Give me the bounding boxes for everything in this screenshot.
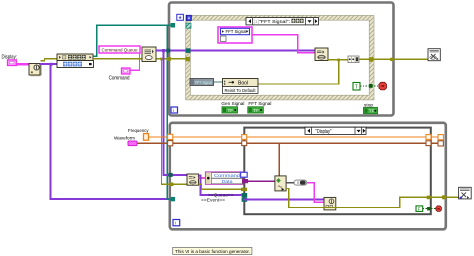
wire+tunnel: Data (dark magenta) into event2 to function VI	[242, 179, 275, 183]
event structure 1 selector label	[246, 18, 319, 26]
label: Reinit To Default	[223, 87, 259, 94]
svg-text:Command: Command	[109, 76, 130, 82]
svg-text:"Display": "Display"	[315, 129, 331, 135]
while loop 1 (top, gray border)	[169, 3, 394, 116]
node: To DDT capsule	[294, 180, 307, 185]
label stop	[364, 102, 373, 108]
svg-text:This VI is a basic function ge: This VI is a basic function generator.	[175, 249, 250, 255]
node: Dequeue Element icon	[187, 174, 199, 185]
node: Basic Function Generator VI icon	[275, 176, 286, 191]
tunnels: orange/brown on event2 left border	[242, 135, 247, 146]
tunnels: orange/brown on loop2 left border	[168, 134, 173, 146]
svg-text:Data: Data	[222, 179, 234, 184]
label FFT Signal	[248, 101, 271, 107]
node: Obtain Queue icon	[142, 47, 156, 62]
tunnel: olive on event1 border	[185, 57, 190, 61]
terminal FFT Signal (boolean TF)	[248, 107, 263, 113]
terminal Command (string, pink)	[122, 68, 131, 74]
svg-text:i: i	[175, 221, 176, 227]
node: Register For Events (user event row)	[57, 61, 94, 68]
wire: cluster (magenta) to enqueue	[252, 35, 315, 53]
terminal Waveform (pink solid)	[128, 141, 137, 146]
wire: dynamic data (magenta) capsule to Generate User Event	[307, 183, 324, 202]
wire: element cluster (pink) dequeue to unbundle	[199, 177, 206, 179]
node: Release Queue icon (top right)	[428, 49, 440, 61]
tunnel: Command (blue hollow) on event2 border	[241, 172, 248, 177]
wire: teal branch down to bottom loop	[167, 25, 171, 199]
svg-text:>>Event>>: >>Event>>	[201, 197, 225, 202]
node: Enqueue Element icon	[315, 48, 328, 61]
terminal stop (boolean TF)	[364, 108, 378, 114]
tunnels: orange/brown on event2 right border	[426, 135, 431, 146]
svg-text:TF: TF	[369, 109, 375, 114]
tunnel: teal on event1 border (hatched)	[186, 23, 191, 28]
wire: Display refnum (pink) to Create User Event	[16, 63, 29, 65]
wire: reference to invoke node	[214, 81, 223, 83]
tunnel: green on event2 right border	[427, 207, 430, 210]
wire: purple branch down to dequeue	[164, 51, 188, 176]
wire: boolean dotted green to loop2 condition	[423, 208, 437, 210]
svg-text:Command Queue: Command Queue	[102, 47, 138, 53]
wire: error (olive) long run to release queue (bottom)	[286, 189, 459, 208]
while loop 2 (bottom, gray border)	[170, 123, 446, 230]
svg-text:Reinit To Default: Reinit To Default	[225, 88, 257, 93]
tunnel: user event (teal) on loop2 border	[171, 197, 175, 201]
wire: Waveform (brown) across bottom loop	[137, 142, 442, 144]
terminal Gen Signal (boolean TF)	[222, 107, 238, 113]
tunnel: olive on loop2 border	[170, 183, 174, 187]
terminal Display (control refnum, pink)	[8, 60, 17, 66]
wire: error (olive) from dequeue to event2	[199, 184, 248, 191]
svg-text:F: F	[418, 207, 421, 212]
constant: boolean T (green) in event1	[353, 83, 360, 91]
svg-text:Bool: Bool	[238, 81, 248, 87]
loop2 iteration terminal [i]	[173, 220, 180, 227]
wire: queue refnum (purple) main run into top loop to enqueue	[156, 49, 315, 52]
svg-text:i: i	[173, 108, 174, 114]
wire: Command string (pink) to obtain queue	[130, 53, 142, 70]
constant: boolean (green) in event2	[416, 206, 423, 212]
tunnel: purple crossing loop2 border (dark)	[168, 173, 172, 177]
node: merge errors	[348, 56, 359, 63]
event structure 1 (hatched border)	[186, 15, 374, 100]
wire: error (olive) register to obtain queue and into top loop	[93, 58, 186, 60]
svg-text:FFT Signal: FFT Signal	[195, 80, 212, 85]
wire: user event refnum (purple) icon to register node, junction dot	[40, 63, 57, 66]
label Command	[109, 76, 130, 82]
node: invoke node "Bool" row	[223, 79, 259, 87]
wire: event reg refnum (teal) register to top loop	[93, 25, 171, 56]
svg-text:FFT Signal: FFT Signal	[226, 29, 247, 34]
node: Generate User Event icon	[324, 197, 336, 210]
wire: olive out of event1 and loop1 to release queue	[359, 58, 428, 61]
svg-text:TF: TF	[228, 108, 234, 113]
local variable: FFT Signal (gray)	[190, 79, 214, 86]
event structure 2 (dark thin border)	[244, 128, 430, 215]
terminal: dynamic event (solid blue on event1 border)	[186, 15, 191, 20]
loop1 iteration terminal [i]	[171, 107, 178, 114]
wire: olive branch down to bottom loop dequeue	[160, 58, 187, 185]
node: Create User Event icon	[29, 64, 42, 77]
label Display	[2, 55, 18, 61]
wire: brown branch down into function VI	[278, 143, 280, 176]
tunnel: green on event1 right border	[369, 84, 373, 88]
svg-text:Waveform: Waveform	[114, 135, 135, 141]
node: Release Queue icon (bottom right)	[459, 187, 472, 199]
caption: free label	[173, 247, 252, 255]
tunnel: purple on loop1 border (dark)	[166, 49, 170, 53]
svg-text:TF: TF	[253, 108, 259, 113]
svg-text:FFT Signal: FFT Signal	[248, 101, 271, 107]
tunnel: teal on loop1 border	[171, 23, 175, 28]
tunnel: purple on event1 border (teal)	[186, 48, 191, 53]
wire: signal icon1 to capsule	[286, 182, 294, 184]
tunnel: olive on loop1 left border	[167, 57, 171, 61]
svg-text:Gen Signal: Gen Signal	[221, 101, 244, 107]
svg-text:Command: Command	[214, 173, 241, 178]
loop2 condition terminal (red stop octagon)	[436, 206, 442, 212]
terminal: dynamic event (blue box outside event1)	[177, 14, 184, 20]
label Gen Signal	[221, 101, 244, 107]
wire: queue out (purple) from dequeue down to >>Queue>> tunnel	[199, 176, 242, 196]
svg-text:"FFT Signal":: "FFT Signal":	[259, 19, 290, 25]
wire: error olive from enqueue right, junction, to merge node	[328, 59, 348, 62]
label Waveform	[114, 135, 135, 141]
tunnel: queue on event2 border (teal)	[242, 193, 248, 197]
node: Register For Events (header row)	[57, 54, 93, 61]
wire: Frequency (orange) across bottom loop	[149, 136, 443, 138]
terminal Frequency (DBL orange hollow)	[144, 134, 149, 141]
tunnel: user event on event2 border + wire to Generate User Event	[242, 198, 324, 202]
tunnel: olive on event1 right border	[369, 57, 373, 61]
wire: purple branch down left side to bottom loop	[51, 64, 171, 199]
wire: boolean dotted green to loop condition	[360, 85, 379, 87]
label Frequency	[128, 128, 149, 134]
tunnels: orange/brown on loop2 right border	[438, 135, 443, 146]
wire: error (olive) create-event to register node	[41, 59, 58, 61]
label >>Queue>>	[208, 192, 234, 197]
wire: olive loop down to invoke node error	[258, 60, 339, 84]
label Command Queue	[99, 46, 140, 53]
node: Unbundle By Name (Command / Data)	[205, 172, 243, 184]
event structure 2 selector label	[305, 127, 366, 135]
label >>Event>>	[201, 197, 225, 202]
constant: cluster (pink frame) with enum FFT Signal	[218, 27, 252, 43]
loop1 condition terminal (red stop octagon)	[379, 82, 387, 90]
